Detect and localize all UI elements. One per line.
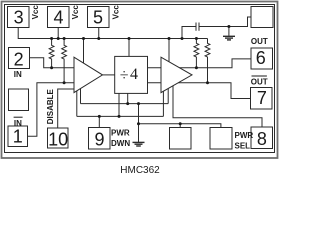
svg-text:OUT: OUT [251,37,268,46]
svg-text:4: 4 [130,66,138,83]
svg-text:10: 10 [48,129,68,149]
svg-text:IN: IN [14,119,22,128]
svg-text:Vcc: Vcc [31,5,40,20]
svg-text:6: 6 [256,48,266,68]
svg-text:IN: IN [14,70,22,79]
svg-text:DISABLE: DISABLE [46,88,55,124]
svg-text:4: 4 [53,7,63,27]
svg-text:PWR: PWR [235,131,254,140]
svg-text:DWN: DWN [111,139,130,148]
svg-text:3: 3 [14,7,24,27]
svg-text:1: 1 [13,126,23,146]
svg-text:Vcc: Vcc [71,5,80,20]
svg-text:2: 2 [14,50,24,70]
svg-text:5: 5 [93,7,103,27]
svg-text:SEL: SEL [235,141,251,150]
svg-text:8: 8 [257,129,267,149]
svg-text:OUT: OUT [251,77,268,86]
svg-text:Vcc: Vcc [111,5,120,20]
svg-text:÷: ÷ [120,67,129,84]
svg-text:7: 7 [257,88,267,108]
svg-text:9: 9 [94,130,104,150]
svg-text:PWR: PWR [111,129,130,138]
svg-text:HMC362: HMC362 [120,165,160,176]
